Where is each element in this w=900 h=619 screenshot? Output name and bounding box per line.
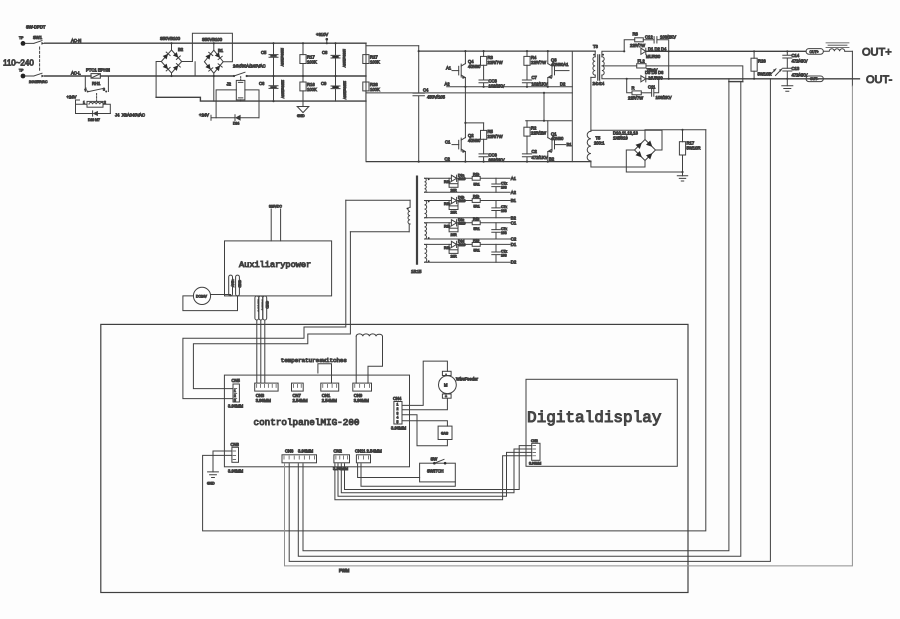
solenoid valve GAS	[438, 426, 452, 439]
svg-text:OUT-: OUT-	[810, 77, 818, 81]
capacitor C12 103/2KV	[645, 35, 676, 52]
svg-text:5R1: 5R1	[474, 227, 480, 231]
svg-text:T3: T3	[593, 44, 599, 49]
svg-text:C1: C1	[511, 220, 517, 225]
resistor R8 22R/7W (snubber)	[624, 32, 654, 52]
transistor Q1 40N60 (IGBT)	[548, 121, 572, 162]
svg-text:A1: A1	[511, 176, 517, 181]
capacitor 103 (C1/C2)	[492, 223, 508, 239]
wire CN11.2 to switch	[361, 464, 455, 486]
thermal switch winding above CN9	[356, 334, 382, 383]
pin capsule AC24V (aux bottom)	[259, 296, 265, 320]
bridge rectifier B2 S50VB100	[156, 36, 192, 97]
svg-text:3.96MM: 3.96MM	[228, 469, 244, 474]
svg-text:1N5819: 1N5819	[613, 136, 628, 141]
wire +DC top rail	[419, 50, 596, 52]
svg-text:C4: C4	[423, 88, 429, 93]
svg-text:103: 103	[501, 231, 507, 235]
resistor R26 100K	[363, 76, 380, 101]
svg-text:2200u/200V: 2200u/200V	[281, 80, 285, 99]
svg-text:D3 D5 D6: D3 D5 D6	[645, 70, 664, 75]
svg-text:4819: 4819	[458, 199, 466, 203]
svg-text:24V/30A/240VAC: 24V/30A/240VAC	[233, 64, 266, 69]
wire aux pins to CN3	[257, 320, 265, 383]
svg-text:A1: A1	[446, 66, 452, 71]
wire CN6.1 to OUT+ sense (long)	[851, 51, 853, 86]
diode D8a 4819	[451, 173, 465, 181]
svg-text:5: 5	[397, 420, 399, 424]
transformer T2 gate drive (core)	[411, 177, 422, 274]
svg-text:R2b: R2b	[444, 180, 450, 184]
svg-text:102/1KV: 102/1KV	[532, 82, 548, 87]
svg-text:AC-L: AC-L	[71, 71, 81, 76]
svg-text:100K: 100K	[370, 60, 380, 65]
transformer T2 secondary winding C1/C2	[425, 223, 511, 239]
wire CN6.4 to shunt left	[303, 82, 729, 551]
svg-text:40N60: 40N60	[468, 138, 481, 143]
wire feeder motor M	[439, 371, 479, 398]
svg-text:OUT+: OUT+	[862, 47, 892, 59]
svg-text:1000u/200V: 1000u/200V	[342, 49, 346, 68]
resistor R17 100K	[300, 43, 317, 76]
resistor R26 5W10R (output bleeder)	[751, 51, 771, 79]
wire right leg vertical	[571, 51, 573, 162]
capacitor C2 472/1KV	[522, 149, 547, 162]
svg-text:GND: GND	[297, 114, 305, 118]
svg-text:4819: 4819	[458, 243, 466, 247]
svg-text:22R/7W: 22R/7W	[630, 43, 645, 48]
svg-text:2200u/200V: 2200u/200V	[343, 81, 347, 100]
svg-text:SWITCH: SWITCH	[427, 469, 444, 474]
capacitor C8 1000u/200V	[322, 43, 346, 76]
svg-text:102/2KV: 102/2KV	[489, 84, 505, 89]
svg-text:R1b: R1b	[473, 238, 479, 242]
svg-text:1: 1	[83, 101, 85, 105]
diode D8b 4819	[451, 196, 465, 204]
diode D8c 4819	[451, 218, 465, 226]
net label OUT- (oval)	[806, 76, 823, 82]
svg-text:J4 X6A040VAC: J4 X6A040VAC	[115, 113, 145, 118]
svg-text:GAS: GAS	[441, 432, 449, 436]
capacitor C13 472/4KV	[783, 66, 808, 79]
svg-text:40N60: 40N60	[468, 64, 481, 69]
svg-text:OUT-: OUT-	[866, 74, 893, 86]
resistor R9 22R/7W (lower snubber)	[627, 79, 652, 101]
svg-text:M: M	[444, 383, 448, 388]
wire CN2.d to display	[345, 446, 532, 490]
diode D20	[76, 111, 111, 122]
svg-text:GND: GND	[238, 280, 242, 288]
svg-text:4819: 4819	[458, 221, 466, 225]
connector CN2 (display) 3.96MM	[529, 439, 541, 466]
svg-text:3.96MM: 3.96MM	[354, 398, 370, 403]
PWM board outline box	[101, 324, 688, 592]
wire CN4.1 to motor top	[402, 361, 447, 405]
capacitor 103 (A1/A2)	[492, 178, 508, 192]
svg-text:-: -	[446, 372, 447, 376]
power flag +310V	[316, 32, 328, 43]
pin capsule GND2 (aux bottom)	[263, 296, 269, 320]
svg-text:CN6: CN6	[285, 449, 294, 454]
wire bridge + output	[645, 130, 706, 140]
capacitor C14 472/4KV	[783, 51, 808, 68]
svg-text:SW-DPDT: SW-DPDT	[26, 25, 46, 30]
svg-text:22R/7W: 22R/7W	[628, 96, 643, 101]
svg-text:C7: C7	[532, 75, 538, 80]
svg-text:SW1: SW1	[33, 35, 43, 40]
capacitor C11 103/2KV	[648, 79, 672, 100]
ground (current sense)	[677, 172, 687, 181]
fan motor DC24V	[183, 287, 238, 310]
svg-text:B1: B1	[567, 142, 573, 147]
wire CN11.1 to switch	[358, 464, 420, 478]
svg-text:RH1: RH1	[92, 81, 101, 86]
svg-text:2: 2	[397, 407, 399, 411]
connector CN7 2.54MM	[292, 383, 309, 403]
digital display board box	[526, 379, 677, 466]
svg-text:GND: GND	[207, 482, 215, 486]
svg-text:5R1: 5R1	[474, 182, 480, 186]
svg-text:B2: B2	[178, 47, 184, 52]
svg-text:R2b: R2b	[444, 202, 450, 206]
svg-text:D20 M7: D20 M7	[88, 118, 100, 122]
wire -DC bottom rail	[367, 161, 591, 163]
svg-text:CN8: CN8	[231, 442, 240, 447]
svg-text:C9: C9	[321, 81, 327, 86]
svg-text:2200u/200V: 2200u/200V	[280, 48, 284, 67]
relay contact RH1 (PTC bypass)	[85, 76, 109, 101]
svg-text:R26: R26	[758, 59, 766, 64]
shunt FL2 75mV	[637, 59, 743, 79]
svg-text:3.96MM: 3.96MM	[391, 426, 407, 431]
transformer T2 secondary winding A1/A2	[425, 178, 511, 192]
svg-text:C14: C14	[792, 53, 800, 58]
svg-text:CN11 2.54MM: CN11 2.54MM	[355, 449, 382, 454]
wire to C4 top	[366, 45, 419, 47]
net label OUT+ (oval)	[806, 49, 823, 55]
svg-text:B1: B1	[218, 48, 224, 53]
svg-text:103: 103	[501, 185, 507, 189]
svg-text:D1: D1	[511, 242, 517, 247]
capacitor C6 2200u/200V	[259, 76, 285, 101]
resistor 20R (B1)	[444, 201, 458, 215]
svg-text:R: R	[632, 86, 635, 91]
svg-text:+24V: +24V	[199, 112, 209, 117]
svg-text:450V/105: 450V/105	[427, 95, 446, 100]
svg-text:20R: 20R	[451, 188, 458, 192]
wire left DC bus vertical	[365, 43, 367, 161]
svg-text:+24V: +24V	[67, 95, 77, 100]
svg-text:2: 2	[234, 394, 236, 398]
svg-text:1: 1	[234, 389, 236, 393]
svg-text:C2: C2	[445, 157, 451, 162]
svg-text:24:4:4: 24:4:4	[593, 81, 605, 86]
shunt on OUT- line	[729, 79, 743, 82]
resistor 20R (D1)	[444, 244, 458, 258]
thermistor PTC1 EPH3I	[86, 68, 234, 79]
switch SW1 (SW-DPDT)	[25, 25, 48, 85]
svg-text:A2: A2	[511, 190, 517, 195]
pin capsule +24V (aux bottom-left)	[229, 275, 235, 296]
svg-text:472/1KV: 472/1KV	[532, 155, 548, 160]
capacitor C9 2200u/200V	[321, 76, 347, 101]
capacitor CC6 682/2KV	[479, 153, 505, 163]
connector CN11	[356, 455, 370, 463]
svg-text:+310V: +310V	[316, 32, 328, 37]
svg-text:20R: 20R	[451, 254, 458, 258]
resistor 20R (A1)	[444, 178, 458, 192]
bridge rectifier B1 S50VB100	[192, 33, 232, 101]
svg-text:J2: J2	[227, 82, 232, 87]
svg-text:controlpanelMIG-200: controlpanelMIG-200	[254, 417, 360, 428]
svg-text:TP: TP	[19, 69, 24, 73]
resistor R27 100K	[363, 43, 380, 76]
svg-text:FL2: FL2	[638, 59, 646, 64]
relay coil RH1 with pins	[67, 95, 111, 114]
svg-text:5R1: 5R1	[474, 248, 480, 252]
ground (output)	[782, 79, 793, 92]
svg-text:472/4KV: 472/4KV	[792, 73, 808, 78]
resistor R17 5W10R (current sense)	[679, 130, 700, 172]
svg-text:1: 1	[397, 403, 399, 407]
svg-text:2.54MM: 2.54MM	[322, 398, 338, 403]
net stubs 310VDC into aux top	[269, 205, 282, 241]
svg-text:R1b: R1b	[473, 217, 479, 221]
svg-text:GND: GND	[265, 301, 269, 309]
wire CN4.2 to motor bottom	[402, 398, 447, 410]
svg-text:CN2: CN2	[531, 439, 538, 443]
wire A2/D2 midline	[447, 86, 573, 88]
connector CN4 3.96MM	[391, 396, 407, 431]
svg-text:4: 4	[397, 416, 399, 420]
svg-text:AC-N: AC-N	[71, 38, 81, 43]
svg-text:TP: TP	[19, 36, 24, 40]
capacitor C7 102/1KV	[522, 75, 547, 87]
svg-text:D2: D2	[511, 260, 517, 265]
wire lower midline	[366, 92, 572, 94]
svg-text:WireFeeder: WireFeeder	[456, 377, 478, 382]
resistor R4 22R/7W	[524, 51, 546, 80]
connector CN8 3.96MM	[228, 442, 244, 474]
resistor R2 22R/2W	[524, 121, 546, 154]
svg-text:B1: B1	[511, 198, 517, 203]
svg-text:100K: 100K	[307, 60, 317, 65]
svg-text:40N60: 40N60	[551, 136, 564, 141]
resistor 5R1 (C1)	[472, 217, 480, 231]
terminal TP2	[19, 69, 25, 79]
svg-text:C5: C5	[261, 50, 267, 55]
ground (control panel)	[207, 451, 232, 486]
relay contact 24V/30A/240VAC	[233, 64, 266, 81]
svg-text:100K: 100K	[307, 87, 317, 92]
svg-text:+24V: +24V	[231, 279, 235, 288]
svg-text:22R/7W: 22R/7W	[531, 60, 546, 65]
diode D1 D2 D4 MUR30	[641, 47, 806, 60]
svg-text:3.96MM: 3.96MM	[529, 462, 541, 466]
wire negative bus	[156, 97, 366, 101]
wire CN4.3 to gas bottom	[402, 415, 447, 446]
svg-text:3: 3	[397, 411, 399, 415]
svg-text:R2b: R2b	[444, 224, 450, 228]
connector CN5 3.96MM	[228, 378, 244, 409]
pin capsule 310VDC (aux bottom)	[255, 296, 261, 320]
connector CN1 2.54MM	[321, 383, 339, 403]
svg-text:310VDC: 310VDC	[269, 205, 282, 209]
wire current feedback CN8 to R17	[203, 130, 706, 531]
svg-text:C11: C11	[648, 85, 656, 90]
capacitor 103 (B1/B2)	[492, 201, 508, 218]
transformer T2 secondary winding D1/D2	[425, 244, 511, 262]
diode D24	[199, 112, 259, 125]
connector CN3 3.96MM	[255, 383, 278, 403]
svg-text:103/2KV: 103/2KV	[660, 35, 676, 40]
svg-text:2: 2	[104, 101, 106, 105]
svg-text:20R: 20R	[451, 211, 458, 215]
wire R2 branch drop	[526, 93, 572, 121]
svg-text:5W10R: 5W10R	[687, 146, 701, 151]
svg-text:SW: SW	[431, 457, 438, 462]
wire mid bus AC-L to caps	[247, 75, 366, 77]
svg-text:22R/2W: 22R/2W	[531, 131, 546, 136]
wire CN6.2 to OUT- sense	[289, 79, 770, 562]
svg-text:103/2KV: 103/2KV	[656, 95, 672, 100]
resistor 5R1 (B1)	[472, 195, 480, 209]
diode D8d 4819	[451, 239, 465, 247]
svg-text:3.96MM: 3.96MM	[228, 404, 244, 409]
svg-text:CN5: CN5	[232, 378, 241, 383]
svg-text:PTC1 EPH3I: PTC1 EPH3I	[86, 68, 110, 73]
terminal TP1	[19, 36, 25, 46]
control panel board box	[224, 375, 409, 467]
bridge rectifier D10,11,12,13 1N5819	[613, 131, 656, 161]
resistor R5 22R/7W	[481, 123, 503, 154]
svg-text:DC24V: DC24V	[196, 295, 208, 299]
svg-text:PWM: PWM	[339, 568, 350, 573]
capacitor C4 450V/105 (DC link)	[413, 46, 446, 162]
svg-text:40N60A1: 40N60A1	[551, 62, 569, 67]
svg-text:R2b: R2b	[444, 246, 450, 250]
svg-text:22R/7W: 22R/7W	[488, 134, 503, 139]
current transformer T5 200:1	[587, 77, 682, 172]
wire AC-N bus	[45, 38, 366, 43]
svg-text:OUT+: OUT+	[810, 50, 819, 54]
transformer T2 primary winding	[346, 200, 410, 232]
wire AC-L	[45, 71, 91, 77]
resistor R16 100K	[300, 76, 317, 101]
ground GND (cap bank)	[297, 101, 309, 118]
svg-text:682/2KV: 682/2KV	[489, 158, 505, 163]
svg-text:C13: C13	[792, 66, 800, 71]
svg-text:R1b: R1b	[473, 195, 479, 199]
resistor 20R (C1)	[444, 223, 458, 237]
resistor 5R1 (D1)	[472, 238, 480, 252]
svg-text:C12: C12	[645, 35, 653, 40]
transformer T2 secondary winding B1/B2	[425, 201, 511, 218]
wire B1 detour box	[192, 33, 232, 61]
svg-text:CN4: CN4	[393, 396, 402, 401]
svg-text:S50VB100: S50VB100	[202, 37, 223, 42]
svg-text:3.96MM: 3.96MM	[256, 398, 272, 403]
svg-text:200:1: 200:1	[594, 141, 605, 146]
spark gap arrester	[770, 69, 783, 76]
wire CN2.c to display	[341, 449, 531, 493]
svg-text:103: 103	[501, 253, 507, 257]
relay coil J2	[216, 80, 259, 117]
svg-text:+: +	[445, 395, 447, 399]
wire CN2.b to display	[338, 452, 532, 496]
svg-text:Auxiliarypower: Auxiliarypower	[239, 260, 311, 270]
svg-text:22R/7W: 22R/7W	[488, 60, 503, 65]
svg-text:3: 3	[234, 399, 236, 403]
svg-text:20R: 20R	[451, 233, 458, 237]
svg-text:CN2: CN2	[334, 449, 343, 454]
capacitor C5 2200u/200V	[261, 43, 284, 76]
svg-text:temperatureswitches: temperatureswitches	[281, 357, 347, 364]
resistor R3 22R/7W	[481, 51, 503, 80]
svg-text:MUR30: MUR30	[649, 75, 664, 80]
svg-text:3: 3	[103, 88, 105, 92]
svg-text:D24: D24	[233, 122, 239, 126]
svg-text:B2: B2	[549, 157, 555, 162]
capacitor CC8 102/2KV	[479, 79, 505, 89]
svg-text:R1b: R1b	[473, 172, 479, 176]
svg-text:S50VB100: S50VB100	[160, 36, 181, 41]
svg-text:4: 4	[85, 88, 87, 92]
svg-text:C8: C8	[322, 50, 328, 55]
transistor Q3 40N60 (IGBT)	[548, 51, 569, 87]
connector CN9 3.96MM	[353, 383, 372, 403]
connector CN2	[334, 455, 350, 463]
svg-text:C2: C2	[511, 237, 517, 242]
junction dots	[170, 42, 788, 173]
svg-text:Digitaldisplay: Digitaldisplay	[527, 409, 662, 427]
svg-text:C6: C6	[259, 81, 265, 86]
svg-text:3.96MM: 3.96MM	[298, 449, 314, 454]
wire CN2.a to display	[335, 456, 532, 500]
torch switch SW	[420, 457, 456, 482]
wire CN6.3 to shunt right	[298, 82, 741, 557]
svg-text:110~240: 110~240	[3, 59, 34, 68]
resistor 5R1 (A1)	[472, 172, 480, 186]
transistor Q2 40N60 (IGBT)	[445, 87, 484, 162]
svg-text:103: 103	[501, 209, 507, 213]
svg-text:C1: C1	[445, 140, 451, 145]
thermal switch symbol above CN1	[318, 364, 332, 383]
svg-text:24A250VAC: 24A250VAC	[29, 80, 48, 84]
svg-text:R8: R8	[633, 32, 639, 37]
svg-text:2.54MM: 2.54MM	[293, 398, 309, 403]
transistor Q4 40N60 (IGBT)	[445, 51, 482, 87]
svg-text:A2: A2	[445, 82, 451, 87]
inductor output choke	[823, 43, 852, 51]
svg-text:5R1: 5R1	[474, 205, 480, 209]
svg-text:100K: 100K	[370, 87, 380, 92]
connector CN6	[282, 455, 317, 463]
diode D3 D5 D6 MUR30	[641, 70, 860, 82]
svg-text:472/4KV: 472/4KV	[792, 59, 808, 64]
wire T2 primary to CN5 (staircase)	[183, 200, 346, 398]
svg-text:D2: D2	[560, 82, 566, 87]
svg-text:C2: C2	[532, 149, 538, 154]
auxiliary power module box	[225, 241, 332, 296]
svg-text:4819: 4819	[458, 177, 466, 181]
pin capsule GND (aux bottom-left)	[236, 275, 242, 296]
svg-text:MUR30: MUR30	[646, 54, 661, 59]
transformer T3 24:4:4	[591, 44, 641, 86]
wire diode cathode join	[668, 51, 670, 79]
wire CN4.4 to gas top	[402, 421, 447, 426]
svg-text:15:15: 15:15	[411, 269, 422, 274]
